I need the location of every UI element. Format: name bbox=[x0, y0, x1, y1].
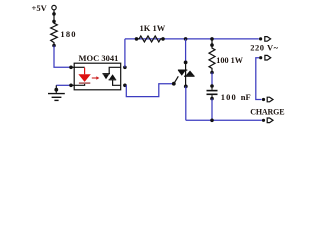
wire C1 to bottom rail bbox=[211, 99, 213, 121]
junction dot R 1K right bbox=[161, 37, 165, 41]
wire pin1 stub bbox=[71, 66, 74, 68]
terminal CHARGE top tag bbox=[267, 97, 273, 102]
resistor R 180 body bbox=[51, 21, 58, 45]
junction dot R100 top bbox=[210, 43, 214, 47]
terminal 220V line 2 tag bbox=[265, 55, 271, 60]
svg-text:180: 180 bbox=[60, 29, 76, 39]
junction dot snubber branch top bbox=[210, 37, 214, 41]
svg-text:MOC 3041: MOC 3041 bbox=[79, 53, 119, 63]
pin dot MOC pin2 (cathode) bbox=[69, 84, 73, 88]
wire U1 pin4 to gate bbox=[126, 84, 172, 97]
LED D1 cathode bar bbox=[79, 82, 90, 84]
wire pin2 stub bbox=[71, 84, 74, 86]
pin dot MOC pin1 (anode) bbox=[69, 66, 73, 70]
wire bottom rail bbox=[186, 119, 262, 121]
junction dot C1 top bbox=[210, 84, 214, 88]
internal triac of U1 bbox=[102, 67, 120, 85]
resistor R 100 1W body bbox=[209, 45, 215, 72]
triac Q1 symbol bbox=[178, 62, 195, 86]
junction dot R180 top bbox=[52, 20, 56, 24]
wire rail to triac bbox=[185, 39, 187, 63]
terminal 220V line 1 dot bbox=[259, 37, 262, 40]
svg-text:220 V~: 220 V~ bbox=[250, 43, 278, 53]
LED anode lead inside U1 bbox=[74, 66, 84, 68]
LED cathode lead inside U1 bbox=[74, 84, 84, 85]
triac gate lead bbox=[174, 76, 179, 83]
LED D1 red triangle bbox=[84, 68, 86, 75]
ground symbol bbox=[48, 94, 65, 101]
wire ground to MOC pin2 bbox=[56, 84, 69, 86]
junction dot gate bbox=[172, 82, 176, 86]
pin dot U1 pin4 bbox=[123, 84, 127, 88]
junction dot ground bbox=[54, 88, 58, 92]
svg-text:1K 1W: 1K 1W bbox=[140, 23, 166, 33]
terminal CHARGE top dot bbox=[262, 98, 265, 101]
junction dot R180 bottom bbox=[52, 44, 56, 48]
wire R100 to C1 bbox=[211, 73, 213, 87]
svg-text:CHARGE: CHARGE bbox=[250, 107, 284, 116]
junction dot bottom rail bbox=[210, 119, 214, 123]
wire triac MT1 down to bottom rail bbox=[185, 86, 187, 120]
wire terminal 2 to terminal 3 bbox=[256, 58, 262, 100]
svg-text:100: 100 bbox=[221, 92, 237, 102]
terminal +5V pin circle bbox=[52, 5, 56, 9]
wire top rail bbox=[125, 38, 259, 40]
wire R180 to MOC pin1 bbox=[54, 46, 70, 68]
junction dot triac branch top bbox=[184, 37, 188, 41]
optocoupler light arrow bbox=[92, 77, 97, 79]
svg-text:+5V: +5V bbox=[32, 3, 48, 13]
terminal CHARGE bottom dot bbox=[262, 119, 265, 122]
wire +5V lead bbox=[53, 10, 55, 22]
junction dot R100 bottom bbox=[210, 71, 214, 75]
svg-text:nF: nF bbox=[241, 92, 251, 102]
terminal 220V line 1 tag bbox=[265, 37, 271, 42]
op-amp U1 MOC 3041 box bbox=[74, 63, 121, 90]
terminal CHARGE bottom tag bbox=[267, 118, 273, 123]
junction dot triac MT1 bbox=[184, 85, 188, 89]
junction dot C1 bottom bbox=[210, 97, 214, 101]
junction dot R 1K left bbox=[135, 37, 139, 41]
svg-text:100 1W: 100 1W bbox=[216, 56, 243, 65]
pin dot U1 pin6 bbox=[123, 66, 127, 70]
capacitor C1 100nF bbox=[207, 86, 218, 99]
wire rail to R100 bbox=[211, 39, 213, 45]
terminal 220V line 2 dot bbox=[259, 56, 262, 59]
junction dot triac MT2 bbox=[184, 61, 188, 65]
junction dot below +5V bbox=[52, 12, 56, 16]
wire ground stub bbox=[55, 85, 57, 93]
wire U1 pin6 up to top rail bbox=[124, 39, 126, 67]
resistor R 1K 1W body bbox=[137, 36, 164, 42]
